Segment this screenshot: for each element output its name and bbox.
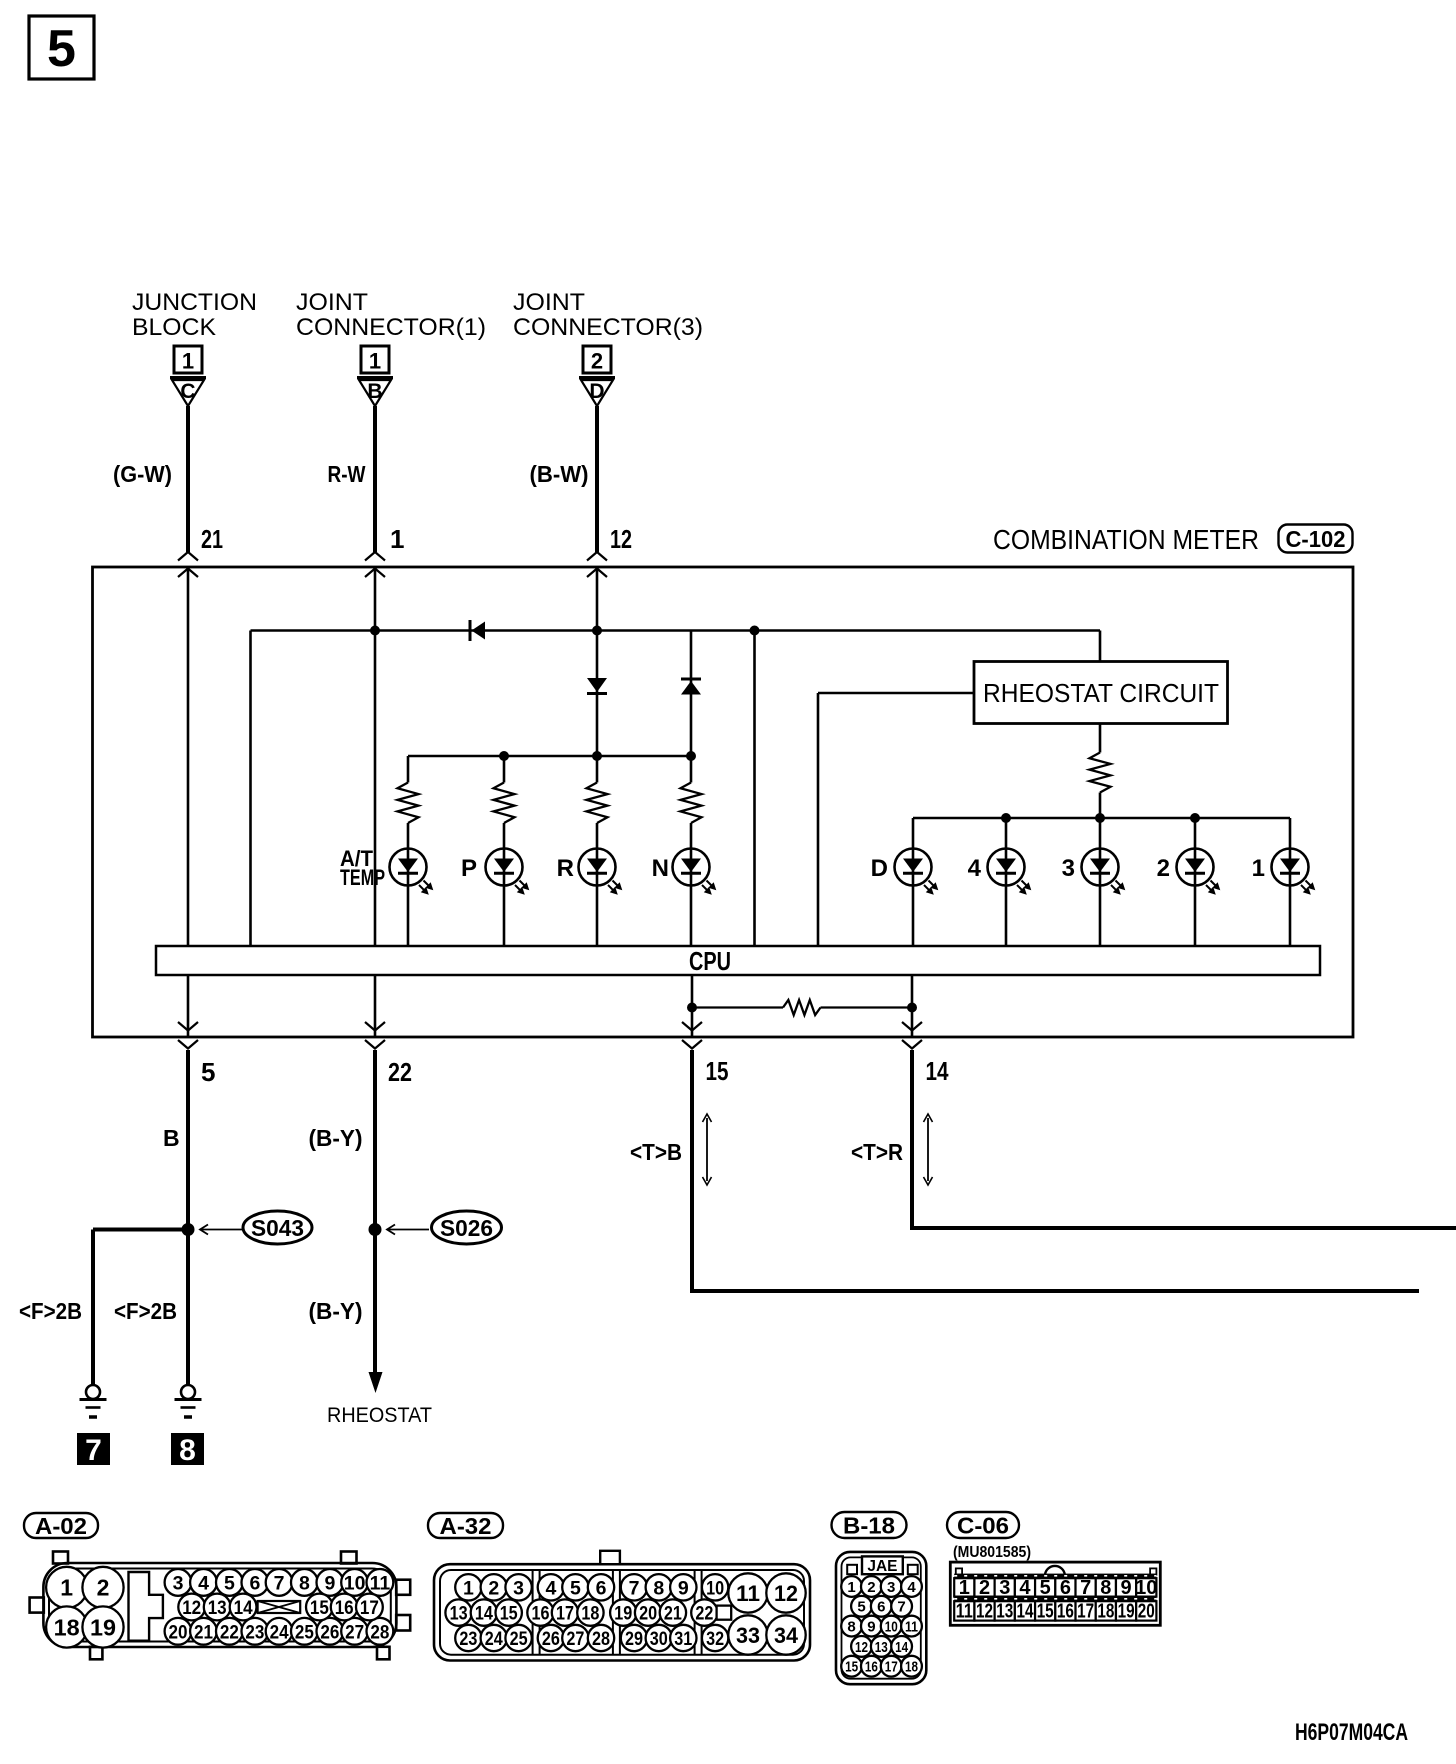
indicator column x=913 wire — [912, 818, 915, 946]
svg-text:1: 1 — [1252, 855, 1265, 882]
svg-text:6: 6 — [1060, 1577, 1071, 1599]
ground symbol 7 — [86, 1385, 100, 1399]
svg-text:28: 28 — [370, 1621, 389, 1643]
connector badge C-102 — [1279, 525, 1353, 553]
svg-text:BLOCK: BLOCK — [132, 314, 216, 341]
svg-text:S026: S026 — [440, 1215, 493, 1241]
connector B-18 pins 12-14 — [851, 1636, 872, 1657]
svg-text:4: 4 — [968, 855, 982, 882]
connector A-02 pins 20-28 — [165, 1618, 192, 1645]
svg-text:7: 7 — [629, 1577, 640, 1599]
svg-text:15: 15 — [1037, 1600, 1054, 1622]
svg-text:5: 5 — [224, 1572, 235, 1594]
svg-text:9: 9 — [867, 1619, 875, 1636]
splice S026 — [369, 1223, 382, 1236]
connector A-32 key square — [717, 1606, 732, 1620]
svg-text:4: 4 — [545, 1577, 556, 1599]
svg-text:RHEOSTAT: RHEOSTAT — [327, 1404, 432, 1427]
svg-text:31: 31 — [674, 1628, 692, 1650]
LED 'P' — [486, 849, 523, 886]
svg-text:D: D — [589, 380, 604, 403]
svg-text:C: C — [180, 380, 195, 403]
svg-text:19: 19 — [614, 1603, 632, 1625]
svg-text:<F>2B: <F>2B — [114, 1298, 177, 1324]
svg-text:13: 13 — [875, 1639, 888, 1656]
wire x=691 from bus down — [690, 631, 693, 757]
pin 15 wire — [690, 1050, 694, 1291]
exit arrow x=912 — [902, 1022, 922, 1031]
svg-text:13: 13 — [208, 1597, 227, 1619]
svg-text:(B-Y): (B-Y) — [309, 1125, 363, 1151]
connector A-02 key — [129, 1572, 163, 1641]
svg-text:14: 14 — [475, 1603, 493, 1625]
svg-text:16: 16 — [532, 1603, 550, 1625]
svg-text:29: 29 — [625, 1628, 643, 1650]
svg-text:24: 24 — [485, 1628, 503, 1650]
wire x=754 to CPU — [753, 631, 756, 947]
CPU box — [156, 946, 1320, 975]
svg-text:6: 6 — [596, 1577, 607, 1599]
svg-text:18: 18 — [581, 1603, 599, 1625]
svg-text:28: 28 — [592, 1628, 610, 1650]
svg-text:12: 12 — [855, 1639, 868, 1656]
svg-text:B-18: B-18 — [843, 1512, 895, 1538]
combination meter box — [93, 567, 1354, 1037]
svg-text:25: 25 — [295, 1621, 314, 1643]
svg-text:18: 18 — [1097, 1600, 1114, 1622]
ground branch wire — [93, 1228, 188, 1232]
indicator column x=691 resistor — [690, 756, 693, 783]
svg-text:21: 21 — [194, 1621, 213, 1643]
connector C-06 corner squares — [956, 1568, 962, 1574]
svg-text:14: 14 — [1016, 1600, 1034, 1622]
svg-text:6: 6 — [877, 1599, 885, 1616]
svg-text:16: 16 — [1057, 1600, 1074, 1622]
svg-text:1: 1 — [847, 1579, 855, 1596]
connector A-02 large pins 1 2 18 19 — [46, 1567, 87, 1608]
LED '4' — [988, 849, 1025, 886]
node at wire B — [370, 626, 380, 636]
connector D pin 2 box — [583, 346, 611, 373]
svg-text:2: 2 — [488, 1577, 499, 1599]
indicator column x=1290 wire — [1289, 818, 1292, 946]
svg-text:5: 5 — [570, 1577, 581, 1599]
wire CPU to pin 22 — [374, 975, 377, 1037]
svg-text:14: 14 — [234, 1597, 253, 1619]
left LED bus — [408, 755, 691, 758]
svg-text:3: 3 — [887, 1579, 895, 1596]
svg-text:16: 16 — [335, 1597, 354, 1619]
connector A-02 pins 3-11 — [165, 1569, 192, 1596]
svg-text:14: 14 — [926, 1056, 949, 1086]
connector A-32 body — [434, 1564, 810, 1660]
wire C to pin 21 (G-W) — [186, 406, 190, 552]
connector A-02 pins 12-17 and keyway — [178, 1594, 205, 1621]
svg-text:11: 11 — [905, 1619, 918, 1636]
connector C-06 hatch strips — [954, 1574, 1156, 1578]
entry arrow pin 1 — [365, 552, 385, 561]
svg-text:3: 3 — [999, 1577, 1010, 1599]
rheostat circuit box — [974, 662, 1228, 724]
connector A-02 tabs — [53, 1552, 68, 1564]
svg-text:1: 1 — [390, 524, 404, 554]
svg-text:17: 17 — [1077, 1600, 1094, 1622]
svg-text:(G-W): (G-W) — [113, 461, 172, 487]
exit arrow x=188 — [178, 1022, 198, 1031]
svg-text:12: 12 — [610, 524, 632, 554]
svg-text:3: 3 — [173, 1572, 184, 1594]
indicator column x=597 resistor — [596, 756, 599, 783]
svg-text:11: 11 — [736, 1581, 760, 1606]
svg-text:25: 25 — [510, 1628, 528, 1650]
svg-text:1: 1 — [959, 1577, 970, 1599]
connector C-06 pins 11-20 — [954, 1601, 974, 1620]
LED 'N' — [673, 849, 710, 886]
svg-text:21: 21 — [664, 1603, 682, 1625]
svg-text:12: 12 — [976, 1600, 993, 1622]
connector B-18 pins 5-7 — [851, 1596, 872, 1617]
svg-text:7: 7 — [85, 1434, 102, 1467]
svg-text:8: 8 — [1100, 1577, 1111, 1599]
svg-text:11: 11 — [956, 1600, 973, 1622]
svg-text:B: B — [163, 1125, 180, 1151]
connector A-32 pins 1-10 — [455, 1574, 481, 1600]
svg-text:4: 4 — [1019, 1577, 1031, 1599]
svg-text:A-02: A-02 — [35, 1513, 87, 1539]
indicator column x=1006 wire — [1005, 818, 1008, 946]
svg-text:26: 26 — [542, 1628, 560, 1650]
svg-text:JUNCTION: JUNCTION — [132, 289, 257, 316]
LED '1' — [1272, 849, 1309, 886]
diode D1 horizontal — [469, 620, 472, 641]
indicator column x=1195 wire — [1194, 818, 1197, 946]
svg-text:18: 18 — [54, 1614, 80, 1640]
entry arrow pin 12 — [587, 552, 607, 561]
LED 'A/T TEMP' — [390, 849, 427, 886]
connector C-06 badge — [947, 1512, 1019, 1538]
resistor between pin15/pin14 wires — [692, 1006, 783, 1008]
connector C pin 1 box — [174, 346, 202, 373]
connector D triangle — [579, 376, 615, 379]
svg-text:27: 27 — [566, 1628, 584, 1650]
LED '2' — [1177, 849, 1214, 886]
svg-text:13: 13 — [450, 1603, 468, 1625]
pin 14 wire — [910, 1050, 914, 1228]
connector B-18 pins 8-11 — [841, 1616, 862, 1637]
svg-text:20: 20 — [1138, 1600, 1155, 1622]
svg-text:27: 27 — [345, 1621, 364, 1643]
wire D to pin 12 (B-W) — [595, 406, 599, 552]
svg-text:32: 32 — [706, 1628, 724, 1650]
svg-text:A-32: A-32 — [440, 1513, 492, 1539]
diode D3 up on x=691 — [681, 678, 701, 681]
svg-text:6: 6 — [249, 1572, 260, 1594]
wire pin12 down — [596, 567, 599, 756]
svg-text:21: 21 — [201, 524, 223, 554]
connector C triangle — [170, 376, 206, 379]
internal bus wire y=630 — [251, 629, 1101, 632]
svg-text:2: 2 — [867, 1579, 875, 1596]
svg-text:30: 30 — [650, 1628, 668, 1650]
page ref 8 — [171, 1433, 204, 1465]
pin 5 wire — [186, 1050, 190, 1230]
svg-text:10: 10 — [344, 1572, 366, 1594]
svg-text:2: 2 — [979, 1577, 990, 1599]
svg-text:12: 12 — [774, 1581, 798, 1606]
diode D2 down on wire D — [587, 678, 607, 692]
svg-text:JAE: JAE — [867, 1558, 897, 1575]
rheostat resistor — [1099, 724, 1102, 753]
svg-text:15: 15 — [845, 1659, 858, 1676]
LED 'R' — [579, 849, 616, 886]
svg-text:9: 9 — [1121, 1577, 1132, 1599]
svg-text:C-06: C-06 — [957, 1512, 1009, 1538]
connector B-18 pins 15-18 — [841, 1656, 862, 1677]
node at wire D — [592, 626, 602, 636]
svg-text:22: 22 — [220, 1621, 239, 1643]
right LED bus — [913, 817, 1290, 820]
svg-text:5: 5 — [47, 20, 76, 78]
svg-text:(B-W): (B-W) — [530, 461, 589, 487]
exit arrow x=692 — [682, 1022, 702, 1031]
svg-text:23: 23 — [245, 1621, 264, 1643]
svg-text:16: 16 — [865, 1659, 878, 1676]
svg-text:2: 2 — [1157, 855, 1170, 882]
connector A-02 badge — [24, 1513, 98, 1538]
svg-text:JOINT: JOINT — [513, 289, 585, 316]
svg-text:CPU: CPU — [689, 946, 731, 976]
svg-text:RHEOSTAT CIRCUIT: RHEOSTAT CIRCUIT — [983, 678, 1219, 708]
svg-text:17: 17 — [885, 1659, 898, 1676]
ground symbol 8 — [181, 1385, 195, 1399]
svg-text:CONNECTOR(1): CONNECTOR(1) — [296, 314, 486, 341]
svg-text:8: 8 — [299, 1572, 310, 1594]
indicator column x=1100 wire — [1099, 818, 1102, 946]
wire pin21 to CPU — [187, 567, 190, 946]
svg-text:17: 17 — [360, 1597, 379, 1619]
svg-text:3: 3 — [513, 1577, 524, 1599]
connector A-02 body — [43, 1563, 396, 1647]
svg-text:2: 2 — [97, 1575, 110, 1601]
wire B to ground — [186, 1230, 190, 1385]
svg-text:10: 10 — [885, 1619, 898, 1636]
connector B-18 pins 1-4 — [841, 1576, 862, 1597]
connector B-18 flanking squares — [847, 1565, 857, 1574]
svg-text:11: 11 — [370, 1572, 391, 1594]
svg-text:D: D — [871, 855, 888, 882]
svg-text:1: 1 — [182, 349, 194, 374]
connector C-06 top latch — [1045, 1566, 1065, 1575]
svg-text:<T>R: <T>R — [851, 1139, 903, 1165]
svg-text:22: 22 — [695, 1603, 713, 1625]
svg-text:34: 34 — [774, 1623, 799, 1648]
svg-text:7: 7 — [1080, 1577, 1091, 1599]
wire CPU to pin 14 — [911, 975, 914, 1037]
wire CPU to pin 5 — [187, 975, 190, 1037]
svg-text:TEMP: TEMP — [340, 865, 385, 890]
wire to rheostat circuit top — [1099, 631, 1102, 663]
svg-text:12: 12 — [182, 1597, 201, 1619]
connector A-32 large pins 11 12 33 34 — [728, 1573, 767, 1612]
svg-text:P: P — [461, 855, 477, 882]
svg-text:(B-Y): (B-Y) — [309, 1298, 363, 1324]
svg-text:19: 19 — [90, 1614, 116, 1640]
wire CPU to pin 15 — [691, 975, 694, 1037]
connector B pin 1 box — [361, 346, 389, 373]
svg-text:1: 1 — [463, 1577, 474, 1599]
svg-text:9: 9 — [678, 1577, 689, 1599]
svg-text:N: N — [652, 855, 669, 882]
connector C-06 pins 1-10 — [954, 1578, 974, 1596]
splice S043 — [182, 1223, 195, 1236]
svg-text:20: 20 — [639, 1603, 657, 1625]
svg-text:9: 9 — [324, 1572, 335, 1594]
left branch wire — [249, 631, 252, 947]
page number 5 box — [29, 16, 94, 79]
svg-text:10: 10 — [706, 1577, 724, 1599]
svg-text:20: 20 — [169, 1621, 188, 1643]
svg-text:15: 15 — [500, 1603, 518, 1625]
connector B triangle — [357, 376, 393, 379]
svg-text:5: 5 — [1040, 1577, 1051, 1599]
svg-text:R: R — [557, 855, 574, 882]
svg-text:5: 5 — [857, 1599, 865, 1616]
node at x=754 — [750, 626, 760, 636]
wire B to pin 1 (R-W) — [373, 406, 377, 552]
svg-text:3: 3 — [1062, 855, 1075, 882]
svg-text:(MU801585): (MU801585) — [953, 1544, 1031, 1561]
svg-text:<T>B: <T>B — [630, 1139, 682, 1165]
exit arrow x=375 — [365, 1022, 385, 1031]
svg-text:7: 7 — [274, 1572, 285, 1594]
twist arrow pin14 — [927, 1118, 929, 1181]
svg-text:14: 14 — [895, 1639, 909, 1656]
svg-text:COMBINATION METER: COMBINATION METER — [993, 524, 1259, 555]
svg-text:<F>2B: <F>2B — [19, 1298, 82, 1324]
svg-text:C-102: C-102 — [1286, 526, 1346, 552]
svg-text:1: 1 — [60, 1575, 73, 1601]
svg-text:R-W: R-W — [328, 461, 366, 487]
connector A-32 pins 23-32 — [455, 1625, 481, 1651]
indicator column x=504 resistor — [503, 756, 506, 783]
svg-text:24: 24 — [270, 1621, 289, 1643]
svg-text:23: 23 — [459, 1628, 477, 1650]
svg-text:2: 2 — [591, 349, 603, 374]
connector C-06 body — [950, 1562, 1160, 1625]
svg-text:JOINT: JOINT — [296, 289, 368, 316]
svg-text:13: 13 — [996, 1600, 1013, 1622]
svg-text:4: 4 — [198, 1572, 209, 1594]
svg-text:S043: S043 — [251, 1215, 304, 1241]
svg-text:8: 8 — [653, 1577, 664, 1599]
svg-text:B: B — [367, 380, 382, 403]
rheostat feedback wire x=818 — [818, 692, 974, 695]
connector B-18 badge — [832, 1512, 907, 1538]
svg-text:H6P07M04CA: H6P07M04CA — [1295, 1719, 1408, 1746]
svg-text:19: 19 — [1118, 1600, 1135, 1622]
svg-text:15: 15 — [706, 1056, 729, 1086]
rheostat arrow — [369, 1372, 383, 1393]
svg-text:8: 8 — [179, 1434, 196, 1467]
connector A-32 badge — [428, 1513, 503, 1538]
connector B-18 JAE box — [862, 1556, 903, 1574]
pin 22 wire — [373, 1050, 377, 1372]
twist arrow pin15 — [706, 1118, 708, 1181]
svg-text:4: 4 — [907, 1579, 916, 1596]
svg-text:22: 22 — [388, 1057, 412, 1087]
svg-text:17: 17 — [556, 1603, 574, 1625]
connector B-18 body — [836, 1552, 926, 1684]
svg-text:CONNECTOR(3): CONNECTOR(3) — [513, 314, 703, 341]
wire pin1 to CPU — [374, 567, 377, 946]
connector A-32 top tab — [600, 1551, 620, 1564]
svg-text:7: 7 — [897, 1599, 905, 1616]
svg-text:1: 1 — [369, 349, 381, 374]
svg-text:10: 10 — [1135, 1577, 1157, 1599]
svg-text:26: 26 — [320, 1621, 339, 1643]
page ref 7 — [77, 1433, 110, 1465]
svg-text:5: 5 — [201, 1057, 215, 1087]
svg-text:18: 18 — [905, 1659, 918, 1676]
connector A-32 dividers — [532, 1570, 534, 1655]
indicator column x=408 resistor — [407, 756, 410, 783]
LED '3' — [1082, 849, 1119, 886]
entry arrow pin 21 — [178, 552, 198, 561]
connector A-32 pins 13-22 — [445, 1599, 471, 1625]
svg-text:15: 15 — [310, 1597, 329, 1619]
svg-text:33: 33 — [736, 1623, 760, 1648]
svg-text:8: 8 — [847, 1619, 855, 1636]
LED 'D' — [895, 849, 932, 886]
